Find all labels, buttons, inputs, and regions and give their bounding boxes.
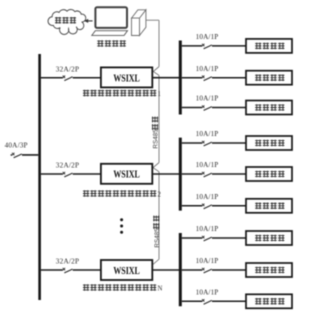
label 10A/1P group 1 #3 [196,95,219,103]
branch breaker 10A/1P group 2 #1 [202,141,212,146]
label 10A/1P group 2 #3 [196,193,219,201]
label RS485总线 (lower, rotated) [153,215,161,247]
branch breaker 10A/1P group 2 #2 [202,172,212,177]
label 10A/1P group 2 #2 [196,161,219,169]
wire: breaker to protector 2 [73,173,101,175]
ellipsis (more protectors) [120,218,123,233]
wire: breaker to load group 1 #1 [212,45,246,47]
wire: main feed to left bus [22,154,38,156]
label 电气防火限流式保护器N [83,284,163,292]
wire: breaker to protector 1 [73,77,101,79]
cloud symbol (internet/安全云 cloud) [48,9,86,34]
wire: breaker to load group 1 #3 [212,107,246,109]
label 10A/1P group 3 #3 [196,288,219,296]
monitoring host laptop base [92,31,128,36]
svg-text:10A/1P: 10A/1P [196,193,219,201]
wire: breaker to load group 3 #1 [212,237,246,239]
svg-text:10A/1P: 10A/1P [196,33,219,41]
wire: group 2 branch 3 from bus [182,205,202,207]
load box 用电设备 group 2 #1 [246,136,292,150]
label 安全云 (security cloud) inside cloud [55,17,76,24]
load box 用电设备 group 2 #2 [246,167,292,181]
svg-text:WSIXL: WSIXL [113,72,140,84]
RS485 bus segment (protector 2 to protector N) [158,172,160,260]
load box 用电设备 group 3 #2 [246,263,292,277]
svg-text:WSIXL: WSIXL [113,169,140,181]
label 40A/3P (main breaker rating) [5,142,28,150]
svg-text:32A/2P: 32A/2P [56,162,79,170]
branch breaker 32A/2P #1 [63,76,73,81]
branch breaker 32A/2P #2 [63,172,73,177]
svg-text:40A/3P: 40A/3P [5,142,28,150]
load box 用电设备 group 1 #2 [246,71,292,85]
load group 1 distribution bus [179,41,182,115]
data gateway module (3D box) [132,10,146,36]
wire: gateway to RS485 bus [146,19,159,21]
RS485 tap into protector 1 [153,67,159,76]
main breaker 40A/3P [11,153,22,158]
wire: group 3 branch 3 from bus [182,300,202,302]
wire: group 3 branch 2 from bus [182,269,202,271]
monitoring host laptop screen [95,7,127,28]
wire: breaker to load group 2 #3 [212,205,246,207]
wire: protector 1 output to group bus [152,77,179,79]
protector U3 WSIXL box [101,260,152,280]
svg-text:2: 2 [158,192,162,199]
wire: group 1 branch 3 from bus [182,107,202,109]
branch breaker 10A/1P group 3 #2 [202,268,212,273]
arrow from monitoring host to cloud [84,19,93,23]
wire: breaker to load group 2 #1 [212,142,246,144]
svg-text:1: 1 [158,91,161,98]
branch breaker 10A/1P group 3 #3 [202,299,212,304]
svg-text:WSIXL: WSIXL [113,265,140,277]
wire: protector 2 output to group bus [152,173,179,175]
wire: group 3 branch 1 from bus [182,237,202,239]
label 10A/1P group 3 #1 [196,225,219,233]
label RS485总线 (upper, rotated) [152,116,160,148]
branch breaker 10A/1P group 1 #3 [202,105,212,110]
RS485 bus segment (protector 1 to protector 2) [158,75,160,162]
branch breaker 10A/1P group 2 #3 [202,204,212,209]
svg-text:10A/1P: 10A/1P [196,95,219,103]
label 32A/2P #2 [56,162,79,170]
protector U2 WSIXL box [101,164,152,184]
svg-text:32A/2P: 32A/2P [56,65,79,73]
label 10A/1P group 2 #1 [196,130,219,138]
load group 3 distribution bus [179,233,182,306]
label 10A/1P group 1 #2 [196,65,219,73]
wire: breaker to load group 1 #2 [212,77,246,79]
RS485 tap into protector N (bus end) [153,259,159,264]
wire: breaker to load group 3 #3 [212,300,246,302]
load box 用电设备 group 1 #3 [246,101,292,115]
label 32A/2P #1 [56,65,79,73]
label 监控主机 (monitoring host) [97,40,126,47]
wire: group 1 branch 1 from bus [182,45,202,47]
label 电气防火限流式保护器1 [83,90,161,98]
svg-text:RS485: RS485 [153,129,160,149]
svg-text:10A/1P: 10A/1P [196,225,219,233]
svg-text:10A/1P: 10A/1P [196,161,219,169]
svg-text:10A/1P: 10A/1P [196,257,219,265]
branch breaker 10A/1P group 1 #1 [202,44,212,49]
wire: left bus to branch breaker 1 [41,77,63,79]
wire: left bus to branch breaker 2 [41,173,63,175]
wire: breaker to load group 2 #2 [212,173,246,175]
svg-text:32A/2P: 32A/2P [56,258,79,266]
label 10A/1P group 1 #1 [196,33,219,41]
wire: group 2 branch 1 from bus [182,142,202,144]
wire: left bus to branch breaker 3 [41,269,63,271]
branch breaker 10A/1P group 1 #2 [202,76,212,81]
label 32A/2P #3 [56,258,79,266]
RS485 tap into protector 2 [153,163,159,172]
wire: protector 3 output to group bus [152,269,179,271]
load box 用电设备 group 3 #1 [246,231,292,245]
RS485 bus segment (gateway down to protector 1) [158,20,160,66]
label 10A/1P group 3 #2 [196,257,219,265]
left distribution bus (vertical) [38,54,41,300]
load box 用电设备 group 3 #3 [246,294,292,308]
label 电气防火限流式保护器2 [83,190,162,198]
branch breaker 10A/1P group 3 #1 [202,236,212,241]
branch breaker 32A/2P #3 [63,268,73,273]
wire: group 1 branch 2 from bus [182,77,202,79]
svg-text:RS485: RS485 [154,228,161,248]
wire: breaker to protector 3 [73,269,101,271]
protector U1 WSIXL box [101,67,152,87]
load group 2 distribution bus [179,138,182,211]
load box 用电设备 group 2 #3 [246,199,292,213]
svg-text:N: N [158,286,163,293]
wire: breaker to load group 3 #2 [212,269,246,271]
wire: group 2 branch 2 from bus [182,173,202,175]
svg-text:10A/1P: 10A/1P [196,288,219,296]
load box 用电设备 group 1 #1 [246,39,292,53]
svg-text:10A/1P: 10A/1P [196,130,219,138]
svg-text:10A/1P: 10A/1P [196,65,219,73]
